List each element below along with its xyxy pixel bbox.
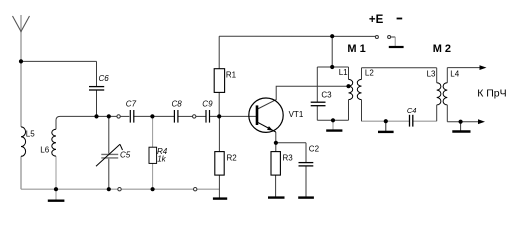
svg-text:C2: C2	[309, 145, 320, 154]
svg-text:М 1: М 1	[347, 43, 365, 55]
svg-text:К ПрЧ: К ПрЧ	[477, 88, 506, 100]
svg-text:C8: C8	[172, 100, 183, 109]
svg-text:L3: L3	[427, 69, 436, 78]
svg-text:C5: C5	[120, 151, 131, 160]
svg-text:L6: L6	[40, 145, 49, 154]
svg-text:C7: C7	[126, 100, 137, 109]
svg-text:L2: L2	[365, 69, 374, 78]
svg-text:R1: R1	[226, 70, 237, 79]
svg-text:L1: L1	[339, 68, 348, 77]
svg-text:М 2: М 2	[433, 43, 451, 55]
svg-text:C6: C6	[99, 74, 110, 83]
svg-text:VT1: VT1	[289, 110, 304, 119]
svg-text:R3: R3	[283, 154, 294, 163]
svg-text:R2: R2	[227, 154, 238, 163]
svg-text:L5: L5	[26, 130, 35, 139]
svg-text:L4: L4	[450, 70, 459, 79]
svg-text:1k: 1k	[157, 154, 166, 163]
svg-text:C4: C4	[407, 106, 417, 115]
svg-text:C9: C9	[202, 100, 213, 109]
svg-text:+E: +E	[369, 14, 384, 26]
svg-text:C3: C3	[321, 91, 332, 100]
